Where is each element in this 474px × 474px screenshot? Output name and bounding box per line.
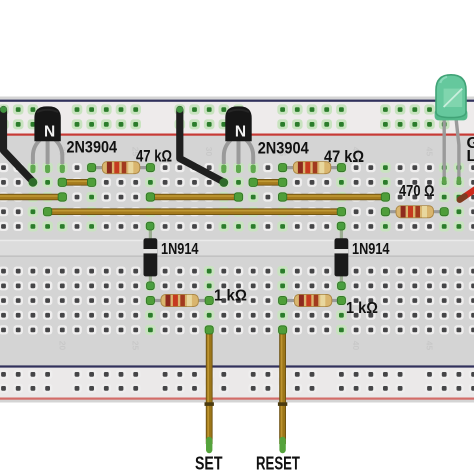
wire row D long (col3 to col23) (43, 208, 345, 216)
bottom power rail holes (0, 370, 474, 393)
svg-text:45: 45 (425, 341, 435, 351)
breadboard bottom red line (0, 398, 474, 400)
svg-text:1 kΩ: 1 kΩ (214, 288, 247, 305)
svg-text:40: 40 (351, 341, 361, 351)
resistor R2 47k (col19-col23 row A) (279, 162, 346, 174)
svg-text:47 kΩ: 47 kΩ (136, 148, 172, 166)
svg-text:1N914: 1N914 (161, 241, 199, 258)
LED green (legs cols 30,31) (435, 75, 468, 184)
center channel (0, 240, 474, 257)
svg-text:45: 45 (425, 147, 435, 157)
main grid holes bottom half (0, 266, 474, 335)
svg-text:LED: LED (467, 148, 474, 165)
svg-text:30: 30 (204, 147, 214, 157)
column number labels (57, 147, 434, 351)
wire row B left (col4 to col6) (58, 178, 96, 186)
svg-text:2N3904: 2N3904 (67, 139, 118, 157)
wire row C left (offscreen to col4) (0, 193, 67, 201)
top power rail holes (0, 104, 450, 129)
resistor R3 470 (col26-col30 row D) (381, 206, 448, 218)
svg-text:470 Ω: 470 Ω (399, 183, 435, 200)
wire row C middle (col10 to col16) (146, 193, 243, 201)
wire row C right (col19 to col26) (278, 193, 389, 201)
diode D2 1N914 (col23) (335, 222, 349, 289)
RESET wire (col19) (278, 326, 287, 450)
svg-text:20: 20 (57, 341, 67, 351)
svg-text:N: N (44, 124, 55, 141)
transistor Q1 2N3904 (cols 2,3,4) (30, 106, 64, 173)
svg-text:1N914: 1N914 (352, 241, 390, 258)
svg-text:25: 25 (131, 341, 141, 351)
resistor R4 1k (col10-col14 row H) (146, 295, 213, 307)
resistor R1 47k (col6-col10 row A) (88, 162, 155, 174)
wire row B right (col17 to col19) (249, 178, 287, 186)
black jumper wire W1 (rail col0 to row B col2) (0, 106, 37, 187)
diode D1 1N914 (col10) (144, 222, 158, 289)
red jumper wire (col31 row C to off right) (460, 187, 474, 200)
breadboard bottom blue line (0, 365, 474, 367)
breadboard top blue line (0, 100, 474, 102)
resistor R5 1k (col19-col23 row H) (279, 295, 346, 307)
svg-text:N: N (235, 124, 246, 141)
breadboard bottom rail zone (0, 368, 474, 398)
SET wire (col14) (205, 326, 214, 450)
breadboard top red line (0, 134, 474, 136)
transistor Q2 2N3904 (cols 15,16,17) (221, 106, 255, 173)
main grid holes top half (0, 163, 474, 232)
svg-text:SET: SET (195, 454, 223, 474)
black jumper wire W2 (rail col12 to row B col15) (176, 106, 228, 187)
svg-text:RESET: RESET (256, 454, 300, 474)
svg-text:2N3904: 2N3904 (258, 140, 310, 158)
svg-text:1 kΩ: 1 kΩ (346, 300, 378, 317)
svg-text:47 kΩ: 47 kΩ (324, 148, 364, 166)
breadboard top rail zone (0, 102, 474, 134)
breadboard body (0, 97, 474, 403)
